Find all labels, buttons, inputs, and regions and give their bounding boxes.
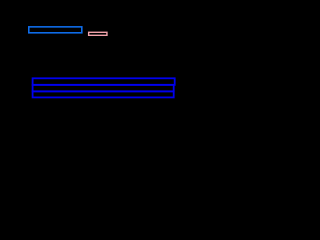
table row 3 [33,91,174,97]
input field outline (top azure box) [29,27,82,33]
table row 1 [33,78,175,85]
button outline (small pink box) [89,32,107,35]
table row 2 [33,85,174,92]
